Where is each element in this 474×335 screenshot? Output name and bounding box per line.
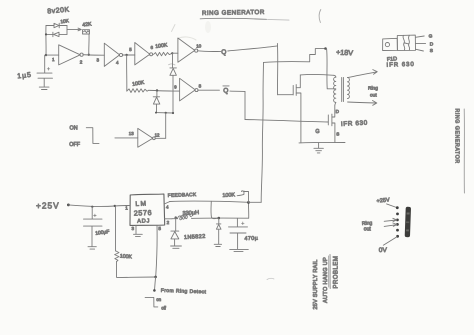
wire feedback top branch [46,25,67,27]
svg-text:8: 8 [199,83,202,88]
node dot after U1B [125,54,127,56]
wire node to riser [249,201,262,203]
inductor 330uH [178,215,192,220]
svg-text:Q: Q [223,88,228,95]
svg-text:Ring: Ring [368,86,378,92]
svg-text:Q: Q [221,49,226,56]
wire clamp rail [156,112,174,114]
svg-text:+25V: +25V [36,201,60,211]
svg-text:IFR 630: IFR 630 [341,120,368,128]
wire rail to U1F output [165,113,167,138]
stray mark above D3 [169,64,176,65]
svg-text:ADJ: ADJ [137,218,150,224]
svg-text:0V: 0V [379,247,388,254]
pin 1 stub [125,205,129,207]
resistor 100K lower [127,89,149,93]
svg-text:2576: 2576 [134,208,153,218]
svg-text:330µH: 330µH [182,210,199,217]
ground zener [214,244,221,246]
wire 100K join horizontal [117,276,156,279]
wire U1D out to Q [198,50,221,53]
wire U1A to U1B [83,54,104,57]
node dots feedback [45,33,90,56]
inverter U1B [104,43,122,66]
page fold line [463,109,465,193]
svg-text:IFR 630: IFR 630 [386,62,415,69]
wire with arrow to 40K [67,28,81,31]
svg-text:AUTO HANG UP: AUTO HANG UP [323,257,329,303]
wire primary top lead [334,75,336,77]
node +18V [324,47,327,50]
svg-text:G: G [315,129,319,135]
svg-text:25V SUPPLY RAIL: 25V SUPPLY RAIL [313,259,319,309]
ground C1 [39,87,49,89]
wire M1 gate horizontal [278,94,294,96]
ground 470uF [230,249,249,251]
wire 0V to pin [383,237,397,245]
svg-text:OFF: OFF [69,142,80,148]
diode Da (top branch) [54,23,59,28]
capacitor 470uF [229,218,248,249]
wire 42K down to node [88,34,90,55]
node dots input rail [91,205,116,208]
diode D1 1N5822 [171,218,179,246]
transformer T1 secondary [347,78,349,99]
pin labels G D S [429,34,434,55]
resistor 100K upper [154,52,173,56]
label Ring out [368,86,378,99]
wire M2 gate horizontal [245,120,328,123]
wire feedback branch join [66,26,68,35]
node dot pin5 join [154,276,157,279]
wire source ground rail [299,141,345,143]
capacitor 100uF [84,207,103,247]
svg-text:470µ: 470µ [244,236,258,242]
wire feedback line [170,201,249,202]
wire U1E out to Qbar [198,89,220,91]
inverter U1F [138,128,156,147]
resistor 42K [83,30,90,34]
wire +18V riser from PSU output [261,62,263,202]
node dot +25V [67,204,70,207]
svg-text:1: 1 [125,206,128,211]
diode D3 clamp chain [170,53,177,113]
svg-text:LM: LM [135,200,148,208]
package pins [415,36,425,51]
svg-text:5: 5 [158,226,161,231]
svg-text:ON: ON [70,126,78,132]
stray pencil dash [267,278,274,279]
connector pin dots [396,206,399,237]
node dot ring detect [153,289,156,292]
wire +25V to LM2576 pin1 [68,205,129,206]
wire to U1E input [149,89,180,92]
svg-text:4: 4 [166,204,169,209]
wire +18V to centre tap [327,49,336,89]
mosfet M2 IFR630 [328,105,335,143]
arrows ring out to pins [384,218,397,226]
svg-text:1: 1 [52,57,55,62]
svg-text:out: out [364,226,372,232]
transformer core [342,78,344,102]
pot wiper arrow [237,191,248,202]
wire U1F input [115,137,138,139]
svg-text:G: G [429,34,433,40]
svg-text:FEEDBACK: FEEDBACK [168,192,197,199]
svg-text:PROBLEM: PROBLEM [334,256,340,289]
capacitor C1 1u5 [37,55,53,86]
svg-text:13: 13 [129,131,134,136]
svg-text:+18V: +18V [336,48,354,58]
wire secondary bottom lead with arrow [348,101,377,106]
wire +25V to pin [387,204,397,208]
wire secondary top lead with arrow [348,70,378,78]
mosfet M1 [293,75,301,143]
note PROBLEM rotated [329,255,340,289]
svg-text:3: 3 [97,58,100,63]
wire feedback bottom branch [46,33,67,35]
wire inductor to output node [192,217,249,219]
on-off step symbol [86,128,99,144]
svg-text:12: 12 [155,132,160,137]
pin 4 stub feedback [165,202,170,204]
svg-text:4: 4 [116,60,119,65]
svg-text:3: 3 [132,226,135,231]
wire U1F output [155,137,166,139]
wire input node [46,54,59,56]
stray parenthesis mark [319,10,321,23]
wire to U1D [172,52,178,54]
wire M1 drain to transformer [300,73,334,76]
svg-text:2: 2 [167,220,170,225]
svg-text:6: 6 [151,45,154,50]
svg-text:out: out [370,93,377,99]
node dots clamp rail [155,112,174,115]
diode Db (bottom branch) [53,32,59,37]
node dot zener tap [218,217,221,220]
wire M2 gate vertical [244,91,246,119]
pin 2 stub output [165,218,173,220]
wire lower branch vertical [126,55,128,91]
node dot lower branch [156,89,158,91]
smudge marks [172,21,212,40]
svg-text:2: 2 [80,60,83,65]
wire +18V staircase [264,49,326,63]
on-off step symbol 2 [145,297,158,307]
node Qbar label [223,86,229,95]
svg-text:S: S [336,132,339,137]
svg-text:100K: 100K [222,192,235,199]
zener diode [216,218,221,244]
wire primary bottom lead [334,102,337,105]
connector strip [405,207,411,238]
svg-text:10: 10 [196,44,201,49]
wire M1 gate vertical [276,44,278,95]
svg-text:RING GENERATOR: RING GENERATOR [453,109,459,164]
svg-text:RING GENERATOR: RING GENERATOR [202,9,265,17]
wire Q to M1 gate [228,46,278,51]
pin 3 stub and ground [134,225,143,236]
ground symbol rail [314,143,324,153]
svg-text:42K: 42K [82,21,92,28]
ground 100uF [88,247,96,249]
svg-text:100K: 100K [120,254,133,261]
svg-text:1N5822: 1N5822 [184,234,206,241]
regulator U2 LM2576 box [130,194,165,225]
node dot output adj [247,201,250,204]
title RING GENERATOR [200,9,289,20]
svg-text:D: D [430,41,434,47]
transformer T1 primary [334,77,336,102]
svg-text:S: S [430,48,433,54]
diode D2 clamp chain [153,91,160,113]
wire feedback drop to zener node [211,201,219,218]
wire Qbar to M2 gate [230,90,245,92]
node dot U1D input [171,52,173,54]
svg-text:on: on [156,297,161,302]
wire output corner up to node [247,203,249,219]
inverter U1C [135,43,153,65]
wire pin5 down [156,225,157,276]
wire pin2 to inductor [172,218,178,220]
wire U1B out, node to U1C [122,54,135,56]
inverter U1E [180,78,198,101]
ground D1 [171,246,182,248]
resistor 100K input [115,206,119,277]
wire feedback left vertical [45,26,47,56]
label Ring out connector [362,220,373,232]
TO-220 package drawing [383,35,416,50]
label LM 2576 ADJ [134,200,153,224]
wire down to ring detect [155,277,156,290]
node dot diode D1 [175,216,177,218]
inverter U1A [59,45,83,65]
inverter U1D [178,38,198,62]
